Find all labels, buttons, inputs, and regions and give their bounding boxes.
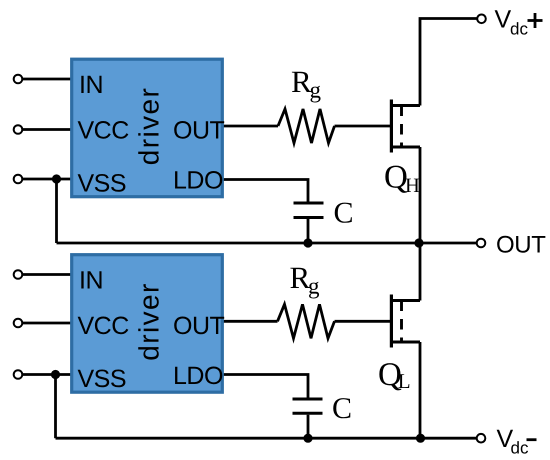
svg-text:driver: driver — [134, 282, 165, 360]
svg-text:dc: dc — [510, 20, 528, 39]
svg-text:LDO: LDO — [173, 167, 223, 195]
svg-text:VSS: VSS — [78, 365, 127, 393]
svg-text:dc: dc — [511, 438, 529, 457]
svg-text:g: g — [308, 274, 320, 299]
svg-text:OUT: OUT — [173, 312, 225, 340]
svg-text:OUT: OUT — [496, 232, 546, 259]
svg-text:C: C — [334, 196, 354, 229]
svg-text:LDO: LDO — [173, 362, 223, 390]
svg-text:driver: driver — [134, 87, 165, 165]
svg-text:VCC: VCC — [78, 312, 130, 340]
svg-text:IN: IN — [79, 71, 103, 99]
svg-text:IN: IN — [79, 267, 103, 295]
svg-text:V: V — [495, 6, 512, 34]
svg-text:L: L — [398, 369, 411, 393]
svg-text:OUT: OUT — [173, 117, 225, 145]
svg-text:H: H — [405, 175, 420, 197]
svg-text:C: C — [332, 392, 352, 425]
svg-text:VSS: VSS — [78, 170, 127, 198]
svg-text:g: g — [310, 78, 322, 103]
svg-text:VCC: VCC — [78, 117, 130, 145]
